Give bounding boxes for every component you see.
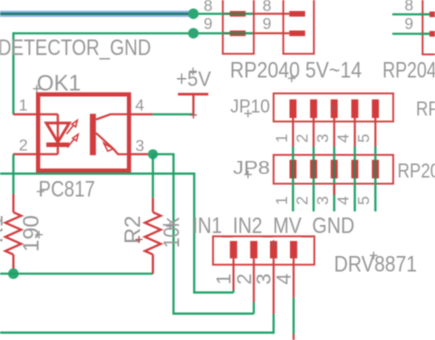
svg-text:2: 2 <box>294 196 311 205</box>
svg-text:8: 8 <box>263 0 272 15</box>
svg-text:9: 9 <box>263 16 272 33</box>
svg-text:2: 2 <box>294 134 311 143</box>
svg-text:1: 1 <box>19 98 28 115</box>
svg-text:RP204: RP204 <box>383 57 435 82</box>
svg-text:9: 9 <box>405 16 414 33</box>
svg-text:10k: 10k <box>159 217 184 248</box>
svg-text:DETECTOR_GND: DETECTOR_GND <box>0 35 151 60</box>
svg-text:3: 3 <box>254 273 276 284</box>
svg-text:4: 4 <box>336 196 353 205</box>
svg-text:2: 2 <box>234 273 256 284</box>
svg-text:9: 9 <box>204 16 213 33</box>
svg-text:4: 4 <box>336 134 353 143</box>
svg-text:OK1: OK1 <box>37 71 81 96</box>
svg-text:2: 2 <box>19 138 28 155</box>
svg-text:5: 5 <box>356 134 373 143</box>
svg-text:8: 8 <box>405 0 414 15</box>
svg-text:190: 190 <box>18 215 43 252</box>
svg-text:RP20: RP20 <box>416 99 435 121</box>
svg-text:4: 4 <box>274 273 296 284</box>
svg-text:RP20: RP20 <box>398 161 435 183</box>
svg-text:IN1_IN2_MV_GND: IN1_IN2_MV_GND <box>193 213 355 238</box>
svg-text:R1: R1 <box>0 215 8 243</box>
svg-text:8: 8 <box>204 0 213 15</box>
svg-text:1: 1 <box>274 196 291 205</box>
svg-text:PC817: PC817 <box>39 177 96 202</box>
svg-text:3: 3 <box>315 196 332 205</box>
svg-text:3: 3 <box>315 134 332 143</box>
svg-text:1: 1 <box>274 134 291 143</box>
svg-text:3: 3 <box>135 138 144 155</box>
svg-text:5: 5 <box>356 196 373 205</box>
svg-text:RP2040 5V~14: RP2040 5V~14 <box>230 57 362 82</box>
svg-text:4: 4 <box>135 98 144 115</box>
svg-text:1: 1 <box>214 273 236 284</box>
